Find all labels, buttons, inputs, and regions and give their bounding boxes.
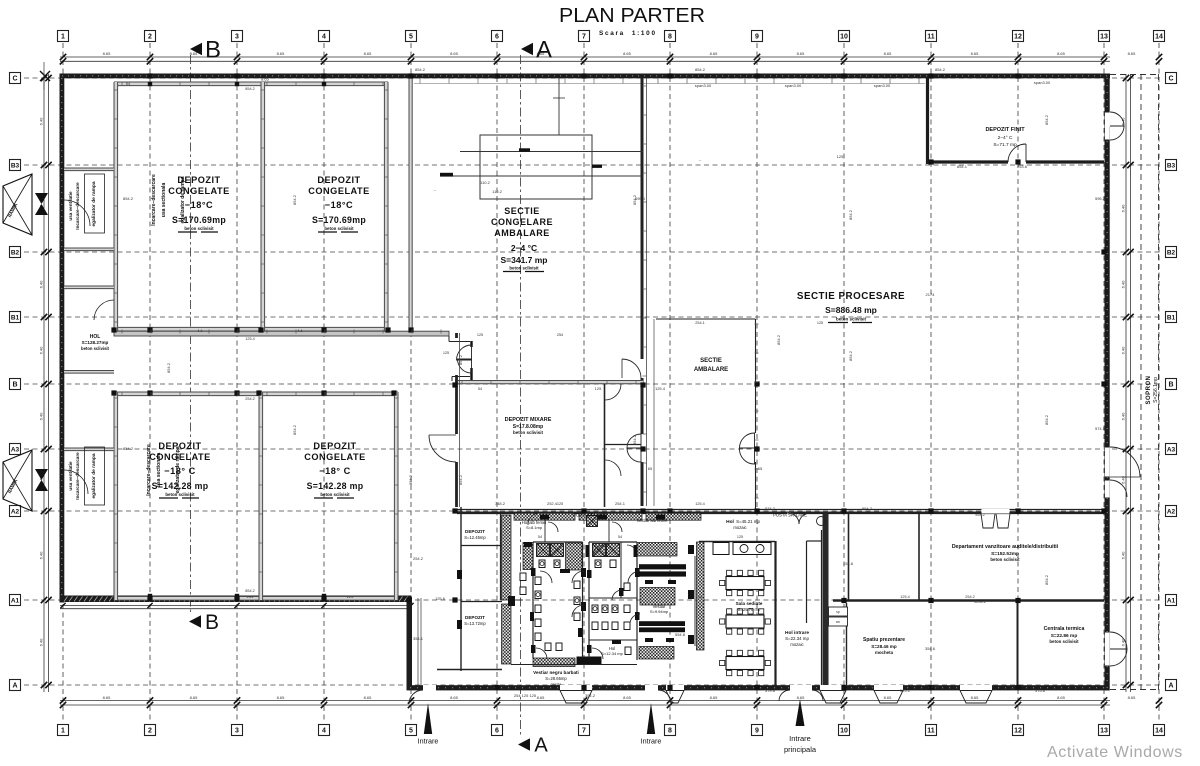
svg-text:beton sclivisit: beton sclivisit <box>509 266 539 271</box>
svg-text:S=12.45mp: S=12.45mp <box>464 535 486 540</box>
svg-text:1: 1 <box>61 34 65 41</box>
svg-text:Incarcare−descarcare: Incarcare−descarcare <box>151 174 157 226</box>
svg-text:8.65: 8.65 <box>1057 51 1066 56</box>
svg-text:854.2: 854.2 <box>632 434 637 445</box>
svg-text:6.40: 6.40 <box>39 280 44 289</box>
svg-text:AMBALARE: AMBALARE <box>494 228 550 238</box>
svg-text:6.40: 6.40 <box>1121 204 1126 213</box>
svg-text:9: 9 <box>755 34 759 41</box>
svg-text:S=12.34 mp: S=12.34 mp <box>601 651 623 656</box>
svg-text:span3.00: span3.00 <box>874 83 891 88</box>
svg-text:8.65: 8.65 <box>971 51 980 56</box>
svg-text:4: 4 <box>322 34 326 41</box>
svg-text:125: 125 <box>837 154 844 159</box>
svg-text:125: 125 <box>347 594 354 599</box>
svg-text:mocheta: mocheta <box>875 650 894 655</box>
svg-text:S=9.94mp: S=9.94mp <box>650 609 669 614</box>
svg-text:574.2: 574.2 <box>765 506 776 511</box>
svg-text:854.2: 854.2 <box>415 67 426 72</box>
svg-text:13: 13 <box>1100 34 1108 41</box>
svg-text:Departament vanzitoare auditel: Departament vanzitoare auditele/distribu… <box>952 544 1059 550</box>
svg-text:Activate Windows: Activate Windows <box>1047 744 1183 761</box>
svg-text:S=71.7 mp: S=71.7 mp <box>993 142 1017 148</box>
svg-text:8.65: 8.65 <box>103 695 112 700</box>
svg-text:10: 10 <box>840 728 848 735</box>
svg-text:6.40: 6.40 <box>1121 280 1126 289</box>
svg-text:125: 125 <box>817 321 823 325</box>
svg-text:Spatiu prezentare: Spatiu prezentare <box>863 637 905 643</box>
svg-text:8.65: 8.65 <box>710 51 719 56</box>
svg-text:B3: B3 <box>1167 163 1176 170</box>
svg-text:Intrare: Intrare <box>789 734 811 743</box>
svg-text:beton sclivisit: beton sclivisit <box>1049 639 1079 644</box>
svg-text:span3.00: span3.00 <box>695 83 712 88</box>
svg-text:A1: A1 <box>1167 598 1176 605</box>
svg-text:S=22.34 mp: S=22.34 mp <box>785 636 809 641</box>
svg-text:110.2: 110.2 <box>492 189 502 194</box>
svg-text:125: 125 <box>477 333 483 337</box>
svg-text:854.2: 854.2 <box>776 334 781 345</box>
svg-text:B: B <box>205 37 221 64</box>
svg-text:54: 54 <box>618 535 622 539</box>
svg-text:A3: A3 <box>1167 447 1176 454</box>
svg-text:125: 125 <box>595 386 602 391</box>
svg-text:B1: B1 <box>11 315 20 322</box>
svg-text:125.4: 125.4 <box>655 386 666 391</box>
svg-text:54: 54 <box>126 81 131 86</box>
svg-text:SECTIE: SECTIE <box>700 358 722 364</box>
svg-text:8.65: 8.65 <box>1128 51 1137 56</box>
svg-text:C: C <box>12 76 17 83</box>
svg-text:8: 8 <box>668 728 672 735</box>
svg-text:854.2: 854.2 <box>695 67 706 72</box>
svg-text:854.2: 854.2 <box>123 446 134 451</box>
svg-text:11: 11 <box>927 34 935 41</box>
svg-text:8.65: 8.65 <box>971 695 980 700</box>
svg-text:S=25.76 mp: S=25.76 mp <box>738 607 761 612</box>
svg-text:egalizator de rampa: egalizator de rampa <box>175 446 181 493</box>
svg-text:8.65: 8.65 <box>884 695 893 700</box>
svg-text:A2: A2 <box>11 509 20 516</box>
svg-text:S=170.69mp: S=170.69mp <box>312 215 366 225</box>
svg-text:2: 2 <box>148 34 152 41</box>
svg-text:beton sclivisit: beton sclivisit <box>320 492 350 497</box>
svg-text:8: 8 <box>668 34 672 41</box>
svg-text:348.2: 348.2 <box>495 501 506 506</box>
svg-text:SECTIE PROCESARE: SECTIE PROCESARE <box>797 291 905 302</box>
svg-text:A: A <box>1168 683 1173 690</box>
svg-text:854.2: 854.2 <box>848 350 853 361</box>
svg-text:125.6: 125.6 <box>435 596 446 601</box>
svg-text:6: 6 <box>495 34 499 41</box>
svg-text:854.2: 854.2 <box>166 362 171 373</box>
svg-text:8.65: 8.65 <box>1128 695 1137 700</box>
svg-text:13: 13 <box>1100 728 1108 735</box>
svg-text:8.65: 8.65 <box>710 695 719 700</box>
svg-text:span3.00: span3.00 <box>785 83 802 88</box>
svg-text:65: 65 <box>758 466 763 471</box>
svg-text:14: 14 <box>1155 728 1163 735</box>
svg-text:A: A <box>534 735 548 757</box>
svg-text:7: 7 <box>582 728 586 735</box>
svg-text:8.65: 8.65 <box>537 695 546 700</box>
svg-text:554.8: 554.8 <box>675 632 686 637</box>
svg-text:DEPOZIT MIXARE: DEPOZIT MIXARE <box>505 417 552 423</box>
svg-text:8.65: 8.65 <box>277 51 286 56</box>
svg-text:574.5: 574.5 <box>1095 426 1106 431</box>
svg-text:854.2: 854.2 <box>1044 574 1049 585</box>
svg-text:254.1: 254.1 <box>615 501 626 506</box>
svg-text:54: 54 <box>538 535 542 539</box>
svg-text:254.2: 254.2 <box>965 595 975 599</box>
svg-text:Incarcare−descarcare: Incarcare−descarcare <box>146 444 152 496</box>
svg-text:8.65: 8.65 <box>364 695 373 700</box>
svg-text:854.2: 854.2 <box>245 87 255 91</box>
svg-text:854.2: 854.2 <box>458 474 463 485</box>
svg-text:125.4: 125.4 <box>900 595 910 599</box>
svg-text:usa ventilatie: usa ventilatie <box>68 191 73 221</box>
svg-text:A1: A1 <box>11 598 20 605</box>
svg-text:54: 54 <box>698 595 702 599</box>
svg-text:beton sclivisit: beton sclivisit <box>836 317 867 322</box>
svg-text:S=128.27mp: S=128.27mp <box>82 340 109 345</box>
svg-text:2: 2 <box>148 728 152 735</box>
svg-text:8.65: 8.65 <box>931 685 938 689</box>
svg-text:6.40: 6.40 <box>39 638 44 647</box>
svg-text:beton sclivisit: beton sclivisit <box>324 226 354 231</box>
svg-text:65: 65 <box>648 466 653 471</box>
svg-text:854.2: 854.2 <box>848 209 853 220</box>
svg-text:4.1: 4.1 <box>197 328 203 333</box>
svg-text:beton sclivisit: beton sclivisit <box>513 430 544 435</box>
svg-text:SOPRON: SOPRON <box>1146 375 1152 404</box>
svg-text:6.40: 6.40 <box>1121 638 1126 647</box>
svg-text:SECTIE: SECTIE <box>504 206 540 216</box>
svg-text:8.65: 8.65 <box>623 51 632 56</box>
svg-text:254 125 125: 254 125 125 <box>514 693 537 698</box>
svg-text:854.1: 854.1 <box>957 164 968 169</box>
svg-text:egalizator de rampa: egalizator de rampa <box>91 453 97 498</box>
svg-text:CONGELARE: CONGELARE <box>491 217 553 227</box>
svg-text:6.40: 6.40 <box>1121 346 1126 355</box>
svg-text:A: A <box>536 37 552 64</box>
svg-text:6.40: 6.40 <box>39 412 44 421</box>
svg-text:S=28.46 mp: S=28.46 mp <box>871 644 897 649</box>
svg-text:mozaic: mozaic <box>733 525 746 530</box>
svg-text:−18°C: −18°C <box>325 200 353 210</box>
svg-text:10: 10 <box>840 34 848 41</box>
svg-text:sp: sp <box>836 610 840 614</box>
svg-text:3: 3 <box>235 728 239 735</box>
svg-text:beton sclivisit: beton sclivisit <box>184 226 214 231</box>
svg-text:354.1: 354.1 <box>413 636 424 641</box>
svg-text:125.4: 125.4 <box>245 337 255 341</box>
svg-text:254.1: 254.1 <box>695 321 705 325</box>
svg-text:Incarcare−descarcare: Incarcare−descarcare <box>75 182 80 230</box>
svg-text:854.2: 854.2 <box>458 354 463 365</box>
svg-text:beton sclivisit: beton sclivisit <box>990 557 1020 562</box>
svg-text:Vestiar alb femei: Vestiar alb femei <box>637 518 668 523</box>
svg-text:12: 12 <box>1014 728 1022 735</box>
svg-text:8.65: 8.65 <box>277 695 286 700</box>
svg-text:S=886.48 mp: S=886.48 mp <box>825 305 877 315</box>
svg-text:egalizator de rampa: egalizator de rampa <box>91 181 97 226</box>
svg-text:B2: B2 <box>1167 250 1176 257</box>
svg-text:4.1: 4.1 <box>297 328 303 333</box>
svg-text:C: C <box>1168 76 1173 83</box>
svg-text:9: 9 <box>755 728 759 735</box>
svg-text:AMBALARE: AMBALARE <box>694 367 728 373</box>
svg-text:egalizator de rampa: egalizator de rampa <box>180 176 186 223</box>
svg-text:8.65: 8.65 <box>866 685 873 689</box>
svg-text:A: A <box>12 683 17 690</box>
svg-text:S=341.7 mp: S=341.7 mp <box>500 255 547 265</box>
svg-text:854.2: 854.2 <box>245 589 255 593</box>
svg-text:854.2: 854.2 <box>1044 414 1049 425</box>
svg-text:−18° C: −18° C <box>319 466 350 476</box>
svg-text:DEPOZIT: DEPOZIT <box>317 175 360 185</box>
svg-text:CONGELATE: CONGELATE <box>308 186 370 196</box>
svg-text:125: 125 <box>557 502 563 506</box>
svg-text:CONGELATE: CONGELATE <box>304 452 366 462</box>
svg-text:4: 4 <box>322 728 326 735</box>
svg-text:125.4: 125.4 <box>695 502 705 506</box>
svg-text:6.40: 6.40 <box>39 117 44 126</box>
svg-text:854.2: 854.2 <box>632 194 637 205</box>
svg-text:579.8: 579.8 <box>765 688 776 693</box>
svg-text:11: 11 <box>927 728 935 735</box>
svg-text:254: 254 <box>557 333 563 337</box>
svg-text:8.65: 8.65 <box>261 77 270 82</box>
svg-text:8.65: 8.65 <box>1057 695 1066 700</box>
svg-text:DEPOZIT: DEPOZIT <box>313 441 356 451</box>
svg-text:B: B <box>1168 382 1173 389</box>
svg-text:8.65: 8.65 <box>797 51 806 56</box>
svg-text:14: 14 <box>1155 34 1163 41</box>
svg-text:S=13.72mp: S=13.72mp <box>464 621 486 626</box>
svg-text:2174: 2174 <box>926 292 936 297</box>
svg-text:854.2: 854.2 <box>123 196 134 201</box>
svg-text:5: 5 <box>409 728 413 735</box>
svg-text:854.2: 854.2 <box>292 424 297 435</box>
svg-text:3: 3 <box>235 34 239 41</box>
svg-text:DEPOZIT FINIT: DEPOZIT FINIT <box>985 127 1025 133</box>
svg-text:5: 5 <box>409 34 413 41</box>
svg-text:125: 125 <box>443 351 449 355</box>
svg-text:12: 12 <box>1014 34 1022 41</box>
svg-text:8.65: 8.65 <box>364 51 373 56</box>
svg-text:854.2: 854.2 <box>292 194 297 205</box>
svg-text:8.65: 8.65 <box>450 51 459 56</box>
svg-text:6.40: 6.40 <box>1121 551 1126 560</box>
svg-text:54: 54 <box>478 387 482 391</box>
svg-text:6: 6 <box>495 728 499 735</box>
svg-text:6.40: 6.40 <box>1121 412 1126 421</box>
svg-text:B3: B3 <box>11 163 20 170</box>
svg-text:DEPOZIT: DEPOZIT <box>465 529 485 534</box>
svg-text:A3: A3 <box>11 447 20 454</box>
svg-text:S=28.65mp: S=28.65mp <box>545 676 567 681</box>
svg-text:B: B <box>12 382 17 389</box>
svg-text:Centrala termica: Centrala termica <box>1044 626 1085 632</box>
svg-text:POSTA SPALARE: POSTA SPALARE <box>573 513 607 518</box>
svg-text:B: B <box>205 611 219 634</box>
svg-text:principala: principala <box>784 745 817 754</box>
svg-text:PLAN PARTER: PLAN PARTER <box>559 4 705 27</box>
svg-text:−18°C: −18°C <box>185 200 213 210</box>
svg-text:1254.2: 1254.2 <box>974 599 987 604</box>
svg-text:S=256.1mp: S=256.1mp <box>1153 377 1159 403</box>
svg-text:S=8.1mp: S=8.1mp <box>526 525 543 530</box>
svg-text:854.2: 854.2 <box>408 474 413 485</box>
svg-text:8.65: 8.65 <box>190 695 199 700</box>
svg-text:854.2: 854.2 <box>1044 114 1049 125</box>
svg-text:8.65: 8.65 <box>450 695 459 700</box>
svg-text:254.2: 254.2 <box>413 556 424 561</box>
svg-text:954.2: 954.2 <box>975 513 985 517</box>
svg-text:6.40: 6.40 <box>39 551 44 560</box>
svg-text:Intrare: Intrare <box>418 737 439 746</box>
svg-text:wc: wc <box>836 620 841 624</box>
svg-text:2−4 °C: 2−4 °C <box>511 243 537 253</box>
svg-text:beton sclivisit: beton sclivisit <box>81 346 110 351</box>
svg-text:B2: B2 <box>11 250 20 257</box>
svg-text:S=45.21 mp: S=45.21 mp <box>736 519 760 524</box>
svg-text:1: 1 <box>61 728 65 735</box>
svg-text:595.2: 595.2 <box>1095 196 1106 201</box>
svg-text:8.65: 8.65 <box>797 695 806 700</box>
svg-text:575.1: 575.1 <box>900 688 911 693</box>
svg-text:854.2: 854.2 <box>935 67 946 72</box>
svg-text:253.6: 253.6 <box>1017 164 1028 169</box>
svg-text:2−4° C: 2−4° C <box>998 135 1013 141</box>
svg-text:usa sectionala: usa sectionala <box>156 453 162 488</box>
svg-text:CONGELATE: CONGELATE <box>168 186 230 196</box>
svg-text:B1: B1 <box>1167 315 1176 322</box>
svg-text:7: 7 <box>582 34 586 41</box>
svg-text:mozaic: mozaic <box>790 642 803 647</box>
svg-text:6.40: 6.40 <box>39 346 44 355</box>
svg-text:575.6: 575.6 <box>1035 688 1046 693</box>
svg-text:usa sectionala: usa sectionala <box>161 183 167 218</box>
svg-text:354.6: 354.6 <box>925 646 936 651</box>
svg-text:954.2: 954.2 <box>862 506 873 511</box>
svg-text:8.65: 8.65 <box>623 695 632 700</box>
svg-text:8.65: 8.65 <box>884 51 893 56</box>
svg-text:125: 125 <box>737 535 743 539</box>
svg-text:8.65: 8.65 <box>103 51 112 56</box>
svg-text:Intrare: Intrare <box>641 737 662 746</box>
svg-text:Vestiar negru barbati: Vestiar negru barbati <box>533 670 579 675</box>
svg-text:DEPOZIT: DEPOZIT <box>465 615 485 620</box>
svg-text:110.2: 110.2 <box>480 180 490 185</box>
svg-text:254: 254 <box>247 594 254 599</box>
svg-text:Sala sedinte: Sala sedinte <box>736 601 763 606</box>
svg-text:A2: A2 <box>1167 509 1176 516</box>
svg-text:154.8: 154.8 <box>843 561 854 566</box>
svg-text:354.2: 354.2 <box>585 693 596 698</box>
svg-text:span3.00: span3.00 <box>1034 80 1051 85</box>
svg-text:S=142.28 mp: S=142.28 mp <box>307 481 364 491</box>
svg-text:usa ventilatie: usa ventilatie <box>68 461 73 491</box>
svg-text:254.2: 254.2 <box>245 397 255 401</box>
